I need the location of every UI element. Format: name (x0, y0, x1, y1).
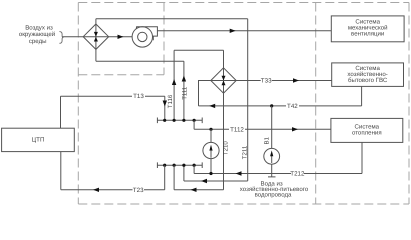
svg-text:Т210: Т210 (222, 141, 229, 156)
svg-text:Т211: Т211 (241, 145, 248, 159)
wire outside air duct (63, 36, 109, 38)
wire T211 riser (247, 19, 249, 181)
block heating system (331, 118, 403, 142)
wire B1 make-up water riser (271, 106, 273, 148)
wire pump P1 riser (210, 129, 212, 142)
wire supply air duct to ventilation system (157, 29, 331, 33)
wire return collector bus (157, 162, 202, 168)
svg-text:отопления: отопления (352, 130, 382, 137)
wire return line to collector with arrow (184, 179, 248, 183)
wire T111 riser with up arrow (182, 61, 186, 120)
node return bus junctions (163, 164, 196, 167)
block domestic hot water system (332, 63, 404, 87)
node junction pump1 top on T112 (209, 128, 212, 131)
svg-text:Т33: Т33 (261, 78, 272, 85)
wire T13 drop to supply bus with down arrow (163, 96, 167, 120)
wire water inlet below pump P2 with end cap (268, 164, 276, 177)
block mechanical ventilation system (331, 16, 404, 42)
svg-text:бытового ГВС: бытового ГВС (348, 77, 388, 84)
svg-text:Т23: Т23 (133, 187, 144, 194)
wire stub from GVS system box down to T42 (361, 86, 363, 106)
wire T42 circulation line with arrow (199, 104, 362, 108)
wire T212 return line with arrow (194, 171, 362, 175)
building boundary dashed bottom (78, 203, 409, 205)
wire T13 supply from CTP (61, 96, 165, 128)
building boundary dashed top (78, 2, 409, 4)
building boundary dashed right (408, 3, 410, 205)
svg-text:Т13: Т13 (133, 93, 144, 100)
wire T33 line to GVS system with arrow (236, 78, 332, 82)
svg-text:В1: В1 (264, 136, 271, 144)
wire return from GVS exchanger bottom route with arrow (174, 165, 223, 192)
pump P2 (264, 148, 280, 164)
node junction pump1 bottom on T212 (209, 172, 212, 175)
node supply bus junctions (163, 119, 196, 122)
svg-text:Т116: Т116 (167, 94, 174, 108)
wire pump P1 drop to T212 (210, 159, 212, 174)
wire drop from return bus to T212 (193, 165, 195, 173)
svg-text:водопровода: водопровода (255, 192, 292, 199)
svg-text:вентиляции: вентиляции (351, 31, 384, 38)
heat exchanger W1 (air heater diamond) (83, 19, 108, 62)
node label "Воздух из окружающей среды" (19, 25, 55, 45)
air handling unit dashed enclosure bottom edge (78, 74, 164, 76)
svg-text:Т42: Т42 (287, 103, 298, 110)
wire heater feed line below diamond (96, 60, 184, 62)
brace (59, 32, 63, 44)
wire drop from supply bus to T112 (193, 120, 195, 129)
wire T112 heating supply line with arrow (194, 127, 331, 131)
svg-text:Т212: Т212 (290, 170, 305, 177)
wire supply collector bus (157, 118, 202, 124)
wire cold side loop left of GVS exchanger (199, 81, 237, 106)
svg-text:ЦТП: ЦТП (32, 137, 45, 144)
svg-text:Т112: Т112 (230, 126, 244, 133)
wire top feed to GVS heat exchanger (174, 49, 223, 51)
block CTP (2, 128, 75, 151)
wire stub from heating system box down to T212 (361, 142, 363, 173)
wire T116 riser with up arrow (172, 50, 176, 120)
node label "Вода из хозяйственно-питьевого водопровода" (240, 180, 309, 198)
dashed separator wall (315, 3, 317, 205)
wire duct to fan with arrow (109, 35, 133, 39)
svg-text:Т111: Т111 (182, 86, 189, 100)
node junction on T42 (270, 104, 273, 107)
svg-text:среды: среды (29, 38, 47, 45)
wire drop from lower bus to T211 return (183, 165, 185, 181)
fan (132, 27, 157, 47)
heat exchanger W2 (GVS diamond) (211, 68, 236, 93)
wire T23 return to CTP with arrow (61, 152, 165, 192)
building boundary dashed left (77, 3, 79, 205)
pump P1 (203, 142, 219, 158)
wire heater return line top (96, 18, 248, 20)
wire vertical through GVS heat exchanger down to lower return (223, 50, 225, 190)
air handling unit dashed enclosure right edge (163, 3, 165, 75)
